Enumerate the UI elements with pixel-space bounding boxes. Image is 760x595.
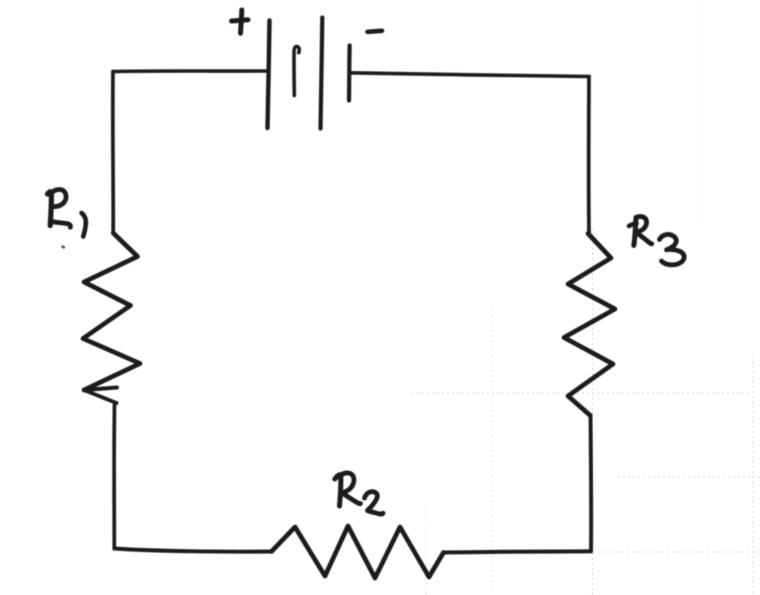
arrowhead at R1 bottom node <box>84 388 117 404</box>
label R3: letter R <box>629 224 637 227</box>
wire top-left horizontal <box>113 69 267 73</box>
battery plate 4 (short, -) <box>347 46 352 101</box>
grid line vertical x593 <box>592 228 594 595</box>
label R1: letter R <box>48 192 52 226</box>
minus sign label <box>368 31 383 32</box>
grid line vertical x753 <box>752 356 754 595</box>
grid line horizontal y394 <box>412 392 752 394</box>
grid line vertical x701 <box>700 0 702 230</box>
grid line vertical x426 <box>425 508 427 595</box>
label R2: subscript 2 <box>365 492 384 514</box>
battery plate 1 (long, +) <box>268 21 270 129</box>
wire right vertical upper <box>587 77 591 234</box>
grid line vertical x492 <box>491 305 493 595</box>
resistor R3 zigzag <box>564 234 615 415</box>
grid line horizontal y477 <box>618 476 760 478</box>
plus sign label <box>241 10 242 33</box>
battery plate 3 (long) <box>321 18 323 129</box>
grid line horizontal y552 <box>597 551 760 553</box>
wire left vertical upper <box>111 72 115 234</box>
label R2: letter R <box>335 474 341 506</box>
wire left vertical lower <box>112 404 116 549</box>
wire top-right horizontal from battery - terminal <box>350 73 590 77</box>
stray dot below R1 <box>63 247 65 248</box>
wire bottom-right horizontal <box>444 551 592 552</box>
wire right vertical lower <box>589 415 594 551</box>
resistor R2 zigzag <box>272 526 444 578</box>
label R3: subscript 3 <box>660 234 685 264</box>
wire bottom-left horizontal <box>114 549 271 552</box>
battery plate 2 (short with hook) <box>294 46 299 95</box>
resistor R1 zigzag <box>83 233 140 390</box>
label R1: subscript 1 <box>82 213 86 237</box>
